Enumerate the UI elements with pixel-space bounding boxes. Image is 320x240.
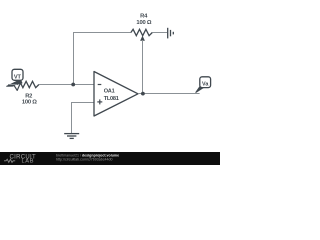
wire VT to R2 <box>8 84 18 86</box>
watermark bar <box>0 152 220 165</box>
svg-text:100 Ω: 100 Ω <box>22 100 37 106</box>
svg-text:LAB: LAB <box>22 159 35 165</box>
svg-text:100 Ω: 100 Ω <box>136 20 151 26</box>
ground G1 (below op-amp) <box>64 134 79 139</box>
op-amp U1 triangle <box>94 72 138 117</box>
wiper arrow of R4 <box>140 36 145 41</box>
op-amp minus sign <box>98 84 102 86</box>
node A junction dot <box>71 83 75 87</box>
svg-text:http://circuitlab.com/c/7b93ab: http://circuitlab.com/c/7b93abc44d0 <box>56 157 113 161</box>
wire R2 to inverting input <box>39 84 94 86</box>
CircuitLab logo <box>4 154 36 164</box>
svg-text:R4: R4 <box>140 13 148 19</box>
ground G2 (rotated right, after R4) <box>168 28 174 39</box>
wire feedback top (node A up and over to R4 left) <box>74 33 132 85</box>
wire output <box>138 93 200 95</box>
resistor R4 (potentiometer body) <box>131 29 152 35</box>
wire non-inverting input to ground leg <box>72 103 95 134</box>
svg-text:Va: Va <box>202 82 209 88</box>
wire R4 right to ground <box>152 32 167 34</box>
output junction dot <box>141 92 145 96</box>
op-amp plus sign <box>97 99 102 104</box>
wire wiper down to output node <box>142 40 144 94</box>
resistor R2 <box>18 81 39 87</box>
voltage tag Va <box>196 77 211 93</box>
voltage tag VT <box>7 69 23 90</box>
svg-text:TL081: TL081 <box>104 96 119 102</box>
svg-text:OA1: OA1 <box>104 89 115 95</box>
svg-text:VT: VT <box>14 75 22 81</box>
svg-text:R2: R2 <box>25 93 32 99</box>
